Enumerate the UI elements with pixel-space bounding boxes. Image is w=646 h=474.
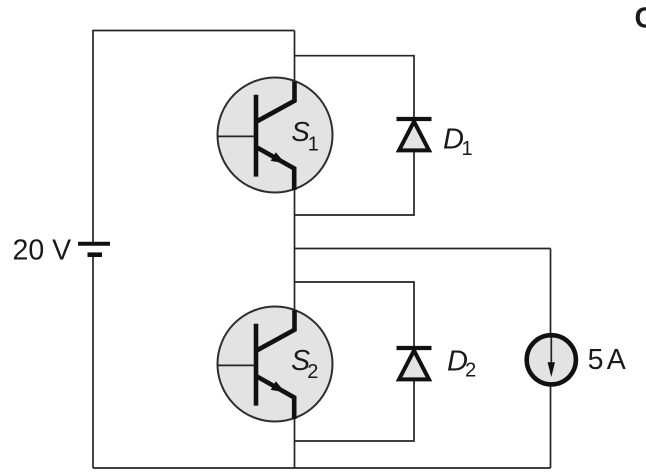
S1 emitter arrowhead bbox=[271, 152, 286, 163]
diode D1 bbox=[397, 119, 432, 150]
D1 cathode bar bbox=[397, 117, 432, 121]
battery long plate (+) bbox=[78, 242, 110, 246]
current source circle bbox=[527, 335, 576, 384]
S1 body circle bbox=[218, 78, 333, 193]
svg-text:2: 2 bbox=[307, 361, 318, 383]
current source I1 5 A bbox=[527, 335, 576, 384]
wire: bottom bus bbox=[93, 467, 551, 469]
wire: left rail upper segment (battery + lead) bbox=[92, 30, 94, 242]
S2 collector path bbox=[257, 311, 295, 351]
S2 body circle bbox=[218, 307, 333, 422]
wire: center rail into S1 collector bbox=[294, 31, 296, 85]
S2 base lead bbox=[218, 364, 257, 366]
wire: center rail S2 emitter to bottom bus bbox=[294, 415, 296, 468]
S1 collector path bbox=[257, 82, 295, 122]
wire: top bus from battery positive to S1 collector bbox=[93, 30, 295, 32]
wire: D2 branch bottom bbox=[295, 381, 415, 441]
D1 triangle (anode, pointing up) bbox=[399, 122, 429, 151]
wire: D1 branch bottom bbox=[295, 152, 415, 215]
wire: D1 branch top bbox=[295, 56, 415, 118]
svg-text:1: 1 bbox=[462, 138, 473, 160]
wire: current source branch upper lead bbox=[550, 249, 552, 335]
wire: center rail S1 emitter to S2 collector (through D1/mid/D2 junctions) bbox=[294, 186, 296, 313]
battery V1 20 V bbox=[78, 244, 110, 255]
S1 base bar bbox=[254, 95, 259, 177]
svg-text:20 V: 20 V bbox=[13, 234, 72, 266]
wire: mid node to current source branch bbox=[295, 248, 551, 250]
wire: left rail lower segment (battery - lead) bbox=[92, 257, 94, 468]
svg-text:5 A: 5 A bbox=[588, 344, 626, 376]
D2 cathode bar bbox=[397, 346, 432, 350]
current source arrowhead (down) bbox=[548, 362, 555, 377]
wire: current source branch lower lead bbox=[550, 385, 552, 468]
diode D2 bbox=[397, 348, 432, 379]
S2 base bar bbox=[254, 324, 259, 406]
svg-text:C: C bbox=[635, 3, 646, 35]
S2 emitter path bbox=[257, 377, 294, 420]
S1 base lead bbox=[218, 135, 257, 137]
transistor S2 (NPN BJT) bbox=[218, 307, 333, 422]
S2 emitter arrowhead bbox=[271, 381, 286, 392]
transistor S1 (NPN BJT) bbox=[218, 78, 333, 193]
D2 triangle (anode, pointing up) bbox=[399, 351, 429, 380]
svg-text:2: 2 bbox=[465, 360, 476, 382]
S1 emitter path bbox=[257, 148, 294, 191]
svg-text:1: 1 bbox=[308, 133, 319, 155]
wire: D2 branch top bbox=[295, 282, 415, 347]
current source arrow shaft bbox=[550, 338, 552, 368]
battery short plate (-) bbox=[88, 252, 103, 257]
